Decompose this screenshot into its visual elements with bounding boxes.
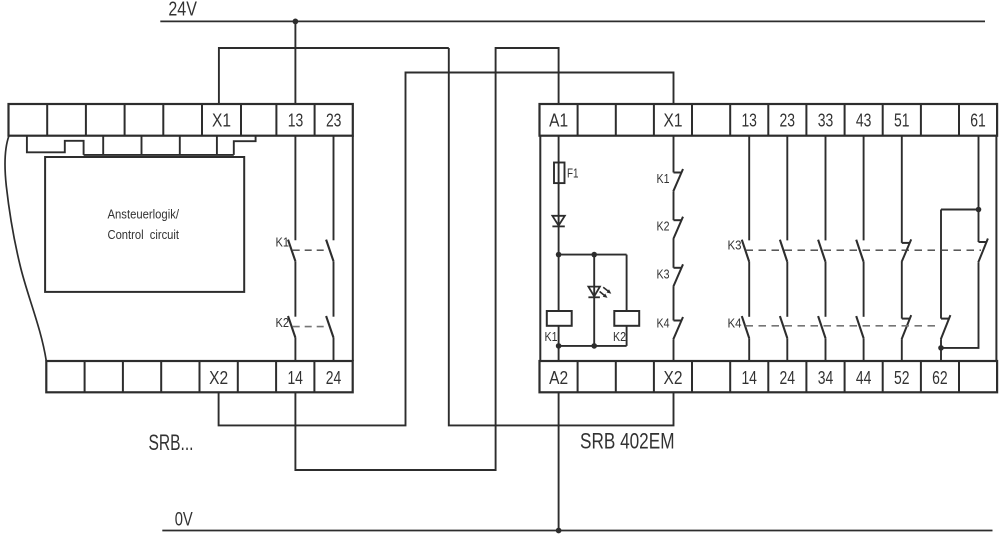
wire terminal 23 to K3 contact (right module) [786,136,788,241]
svg-text:14: 14 [287,368,303,388]
wire terminal 33 to K3 contact [825,136,827,241]
mechanical link dashed K4 row (right module) [746,325,939,327]
wire terminal 13 to K3 contact (right module) [748,136,750,241]
left module housing right edge [352,136,354,361]
svg-text:A2: A2 [549,368,568,388]
contact K1 blade on 13-14 (left module) [288,240,295,262]
control logic box U1 (Ansteuerlogik) [45,157,244,292]
contact K3 blade on 33-34 [818,240,825,262]
left module housing torn-edge break line [5,136,46,361]
wire A1 branch with fuse and diode [558,136,560,227]
contact K2 blade on 13-14 (left module) [288,316,295,338]
node K1 coil bottom junction [556,343,562,349]
svg-text:K2: K2 [613,329,626,344]
wire junction down to LED [593,255,595,298]
svg-text:14: 14 [741,368,757,388]
wire K1 coil to bottom rail and A2 [558,326,560,361]
wire terminal 43 to K3 contact [863,136,865,241]
wire chain K3 to K4 [673,287,675,321]
wire terminal 23 to contact K1 (left module) [333,136,335,241]
wire K2 contact to terminal 24 [333,338,335,361]
svg-text:SRB...: SRB... [149,430,194,455]
svg-text:51: 51 [894,110,910,130]
mechanical link dashed K1 row (left module) [293,249,326,251]
contact K4 NC in X1-X2 chain [673,317,683,339]
wire junction down to K1 coil [558,255,560,311]
wire terminal 61 down to branch node [978,136,980,210]
svg-text:K2: K2 [657,218,670,233]
svg-text:K2: K2 [276,315,290,330]
node LED branch junction [591,252,597,258]
svg-text:43: 43 [856,110,872,130]
wire K2 contact to terminal 14 [294,338,296,361]
wire between K1 and K2 contacts on 13-14 [294,261,296,317]
wire between K3 and K4 contacts on 23-24 [786,262,788,317]
wire K4 contact to terminal 14 (right module) [748,338,750,361]
wire chain K4 to X2 [673,339,675,361]
node 62 lower junction [938,345,944,351]
contact K4 blade on 13-14 [742,316,749,338]
contact K1 blade on 23-24 (left module) [326,240,333,262]
svg-text:24: 24 [780,368,796,388]
svg-text:X2: X2 [209,368,228,388]
svg-text:0V: 0V [175,509,193,531]
contact K4 blade on 23-24 [780,316,787,338]
wire left module X2 to right module X1 [219,73,674,426]
svg-text:13: 13 [741,110,757,130]
left module SRB... top terminal row [9,104,353,136]
wire K4 contact to terminal 24 (right module) [786,338,788,361]
contact K4 blade on 43-44 [856,316,863,338]
svg-text:K3: K3 [657,266,670,281]
mechanical link dashed K2 row (left module) [293,326,326,328]
svg-text:33: 33 [818,110,834,130]
svg-text:13: 13 [288,110,304,130]
wire X1 down to K1 chain contact [673,136,675,173]
wire terminal 13 to contact K1 (left module) [294,136,296,241]
wire 24V branch to left module X1 [219,48,449,104]
wire between K3 and K4 NC contacts on 51-52 [901,262,903,319]
LED indicator [588,287,611,298]
right module housing right edge [995,136,997,361]
diode D1 [552,216,564,227]
wire 24V to left module terminal 13 [294,21,296,104]
wire between K3 and K4 contacts on 13-14 [748,262,750,317]
node junction on 24V rail [293,19,299,25]
contact K3 NC in X1-X2 chain [673,264,683,286]
contact K2 NC in X1-X2 chain [673,217,683,239]
wire right module A2 to 0V [558,392,560,530]
wire left module 14 feedback to right module A1 [295,48,558,470]
wire junction horizontal to K2 coil branch [559,254,627,256]
svg-text:SRB 402EM: SRB 402EM [580,429,675,454]
svg-text:44: 44 [856,368,872,388]
svg-text:K4: K4 [728,316,742,331]
fuse F1 [554,163,565,184]
contact K3 NC on 61-62 [978,239,988,263]
wire K3 NC contact down to lower junction [941,262,979,348]
svg-text:X1: X1 [664,110,683,130]
svg-text:61: 61 [970,110,986,130]
svg-text:K4: K4 [657,316,670,331]
wire terminal 51 to K3 NC contact [901,136,903,243]
wire K4 NC contact to terminal 52 [901,339,903,361]
contact K3 blade on 23-24 [780,240,787,262]
svg-text:52: 52 [894,368,910,388]
node junction on 0V rail (A2) [556,528,562,534]
wire 61 node down to K3 NC contact [978,210,980,243]
net 0V rail [162,530,992,532]
svg-text:X1: X1 [212,110,231,130]
svg-text:F1: F1 [567,166,579,181]
wire between K1 and K2 contacts on 23-24 [333,261,335,317]
contact K4 NC on 61-62 branch [941,315,951,339]
svg-text:K1: K1 [545,329,558,344]
left module bottom terminal row [46,361,352,392]
svg-text:23: 23 [780,110,796,130]
wire K4 NC contact to lower junction [940,339,942,348]
relay coil K2 [614,311,639,326]
svg-text:K1: K1 [276,235,290,250]
wire K4 contact to terminal 44 [863,338,865,361]
svg-text:A1: A1 [549,110,568,130]
right module SRB 402EM top terminal row [540,104,998,136]
wire LED to bottom rail [593,297,595,346]
svg-text:K3: K3 [728,238,742,253]
wire coil bottom rail [559,345,627,347]
wire K2 coil to bottom rail [626,326,628,346]
contact K2 blade on 23-24 (left module) [326,316,333,338]
contact K3 blade on 13-14 [742,240,749,262]
contact K3 NC on 51-52 [902,239,912,262]
wire between K3 and K4 contacts on 33-34 [825,262,827,317]
relay coil K1 [547,311,572,326]
right module bottom terminal row [540,361,998,392]
svg-text:24: 24 [326,368,342,388]
net 24V rail [160,20,985,22]
wire junction to terminal 62 [940,348,942,361]
contact K4 NC on 51-52 [902,315,912,339]
svg-text:34: 34 [818,368,834,388]
contact K1 NC in X1-X2 chain [673,169,683,191]
svg-text:24V: 24V [168,0,197,21]
left module plug-in terminal tabs below top row [27,136,256,155]
node 61 branch junction [976,207,982,213]
wire between K3 and K4 contacts on 43-44 [863,262,865,317]
node A1 branch junction [556,252,562,258]
wire chain K2 to K3 [673,239,675,268]
svg-text:K1: K1 [657,171,670,186]
wire K2 coil branch down [626,255,628,311]
svg-text:23: 23 [326,110,342,130]
wire K4 contact to terminal 34 [825,338,827,361]
node LED bottom junction [591,343,597,349]
wire 61 branch horizontal [941,209,979,211]
wire chain K1 to K2 [673,191,675,220]
right module housing left edge [539,136,541,361]
contact K3 blade on 43-44 [856,240,863,262]
svg-text:62: 62 [932,368,948,388]
svg-text:Control circuit: Control circuit [108,227,180,242]
wire diode to junction node [558,226,560,254]
svg-text:Ansteuerlogik/: Ansteuerlogik/ [108,206,180,221]
contact K4 blade on 33-34 [818,316,825,338]
wire cross-connection left X1 to right module X2 [449,48,674,425]
mechanical link dashed K3 row (right module) [746,249,982,251]
wire left branch down to K4 NC contact [940,210,942,319]
svg-text:X2: X2 [664,368,683,388]
